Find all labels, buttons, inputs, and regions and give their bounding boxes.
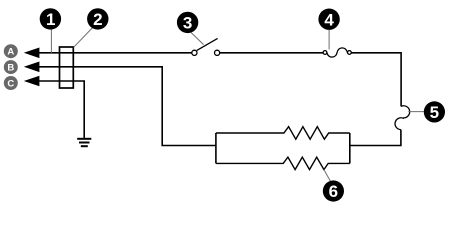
callout 3 [177, 12, 198, 33]
svg-text:5: 5 [430, 103, 439, 122]
callout 1 [40, 8, 61, 29]
arrowhead A [24, 48, 40, 59]
switch S1 blade [197, 38, 218, 50]
callout 5 leader [408, 111, 424, 113]
callout 2 leader [74, 28, 93, 47]
node C [4, 76, 18, 90]
svg-text:C: C [7, 79, 14, 90]
callout 6 [323, 180, 344, 201]
circuit breaker element [323, 48, 351, 57]
in-line connector lower half [395, 118, 404, 130]
resistor bank right bar [349, 133, 351, 163]
arrowhead C [24, 76, 40, 87]
svg-text:2: 2 [93, 10, 102, 29]
ground [77, 139, 91, 146]
node B [4, 60, 18, 74]
connector C1 [60, 47, 74, 88]
svg-text:3: 3 [183, 14, 192, 33]
arrowhead B [24, 62, 40, 73]
callout 4 leader [328, 30, 330, 50]
switch S1 left contact [192, 50, 197, 55]
svg-text:B: B [7, 63, 14, 74]
resistor bank left bar [215, 133, 217, 163]
callout 5 [424, 101, 445, 122]
wire breaker to top-right corner down to connector [351, 53, 401, 107]
callout 4 [318, 9, 339, 30]
svg-text:6: 6 [329, 182, 338, 201]
wire connector down and left to resistor bank [350, 130, 401, 146]
wire row B to junction, down and right to resistor bank [39, 67, 216, 146]
svg-text:1: 1 [46, 10, 55, 29]
in-line connector upper half [401, 106, 410, 118]
switch S1 right contact [215, 50, 220, 55]
svg-text:4: 4 [324, 10, 334, 29]
wire row C to ground lead [39, 81, 85, 138]
resistor R-top [216, 127, 350, 140]
resistor R-bottom [216, 157, 350, 170]
callout 6 leader [324, 170, 331, 182]
wire row A [39, 52, 192, 54]
callout 3 leader [191, 32, 204, 45]
svg-text:A: A [7, 47, 14, 58]
callout 2 [87, 8, 108, 29]
wire switch to breaker [220, 52, 323, 54]
node A [4, 44, 18, 58]
callout 1 leader [50, 29, 52, 52]
